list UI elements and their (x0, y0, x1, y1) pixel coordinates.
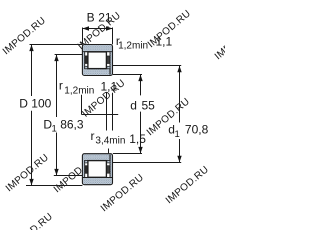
svg-text:d: d (130, 98, 137, 112)
D extension line bottom (26, 185, 82, 187)
svg-text:r: r (91, 129, 95, 143)
svg-text:55: 55 (142, 98, 156, 112)
r1,2 leader line left (81, 95, 83, 115)
D extension line top (30, 44, 83, 46)
D arrow top (29, 45, 33, 52)
B arrow left (83, 26, 90, 30)
svg-text:1: 1 (52, 124, 57, 135)
outer+inner ring body (82, 45, 112, 76)
d1 arrow top (177, 66, 181, 73)
inner ring flange lip left (85, 66, 88, 68)
r leader line right (112, 93, 114, 131)
B extension line right (112, 28, 114, 45)
d dimension line lower segment (140, 112, 142, 154)
roller pocket (85, 52, 110, 69)
d1 extension line lower (113, 162, 181, 164)
D1 arrow top (54, 55, 58, 62)
cylindrical roller (88, 52, 107, 69)
svg-text:IMPOD.RU: IMPOD.RU (8, 211, 55, 230)
d arrow top (138, 75, 142, 82)
svg-text:r: r (59, 78, 63, 92)
D arrow bottom (29, 179, 33, 186)
d1 dimension line lower segment (179, 139, 181, 162)
d dimension line upper segment (140, 75, 142, 96)
r3,4 leader line (108, 149, 110, 154)
D1 extension line top (55, 54, 83, 56)
D1 arrow bottom (54, 169, 58, 176)
cage bar left (85, 56, 88, 64)
D1 dimension line upper segment (56, 55, 58, 117)
svg-text:86,3: 86,3 (60, 118, 84, 132)
loose flange joint line (109, 69, 111, 75)
D dimension line upper segment (31, 45, 33, 96)
svg-text:D: D (19, 97, 28, 111)
B arrow right (106, 26, 113, 30)
outer ring raceway line (83, 51, 113, 53)
svg-text:1,2min: 1,2min (64, 85, 94, 96)
axis line (82, 114, 119, 116)
svg-text:IMPOD.RU: IMPOD.RU (164, 164, 211, 206)
D1 extension line bottom (54, 175, 83, 177)
svg-text:IMPOD.RU: IMPOD.RU (4, 152, 51, 194)
watermark IMPOD.RU tiled (1, 8, 260, 240)
d extension line lower (113, 153, 142, 155)
bearing cross-section, upper half (82, 45, 112, 76)
B extension line left (82, 28, 84, 45)
svg-text:1,1: 1,1 (101, 80, 118, 94)
d1 extension line upper (113, 65, 181, 67)
D dimension line lower segment (31, 111, 33, 186)
svg-text:70,8: 70,8 (185, 123, 209, 137)
svg-text:21: 21 (98, 10, 112, 24)
D1 dimension line lower segment (56, 133, 58, 176)
svg-text:1: 1 (175, 129, 180, 140)
svg-text:1,2min: 1,2min (118, 41, 148, 52)
B dimension line (83, 28, 113, 30)
r leader line center (106, 93, 108, 131)
svg-text:IMPOD.RU: IMPOD.RU (1, 15, 48, 57)
d1 arrow bottom (177, 156, 181, 163)
svg-text:B: B (87, 10, 95, 24)
svg-text:1,5: 1,5 (129, 132, 146, 146)
bearing cross-section, lower half (mirror) (82, 154, 112, 185)
svg-text:100: 100 (31, 97, 51, 111)
d1 dimension line upper segment (179, 66, 181, 123)
loose flange ring lip right (107, 66, 110, 68)
d arrow bottom (138, 147, 142, 154)
cage bar right (107, 56, 110, 64)
svg-text:3,4min: 3,4min (95, 135, 125, 146)
svg-text:1,1: 1,1 (156, 34, 173, 48)
d extension line upper (113, 74, 142, 76)
svg-text:IMPOD.RU: IMPOD.RU (213, 20, 225, 62)
